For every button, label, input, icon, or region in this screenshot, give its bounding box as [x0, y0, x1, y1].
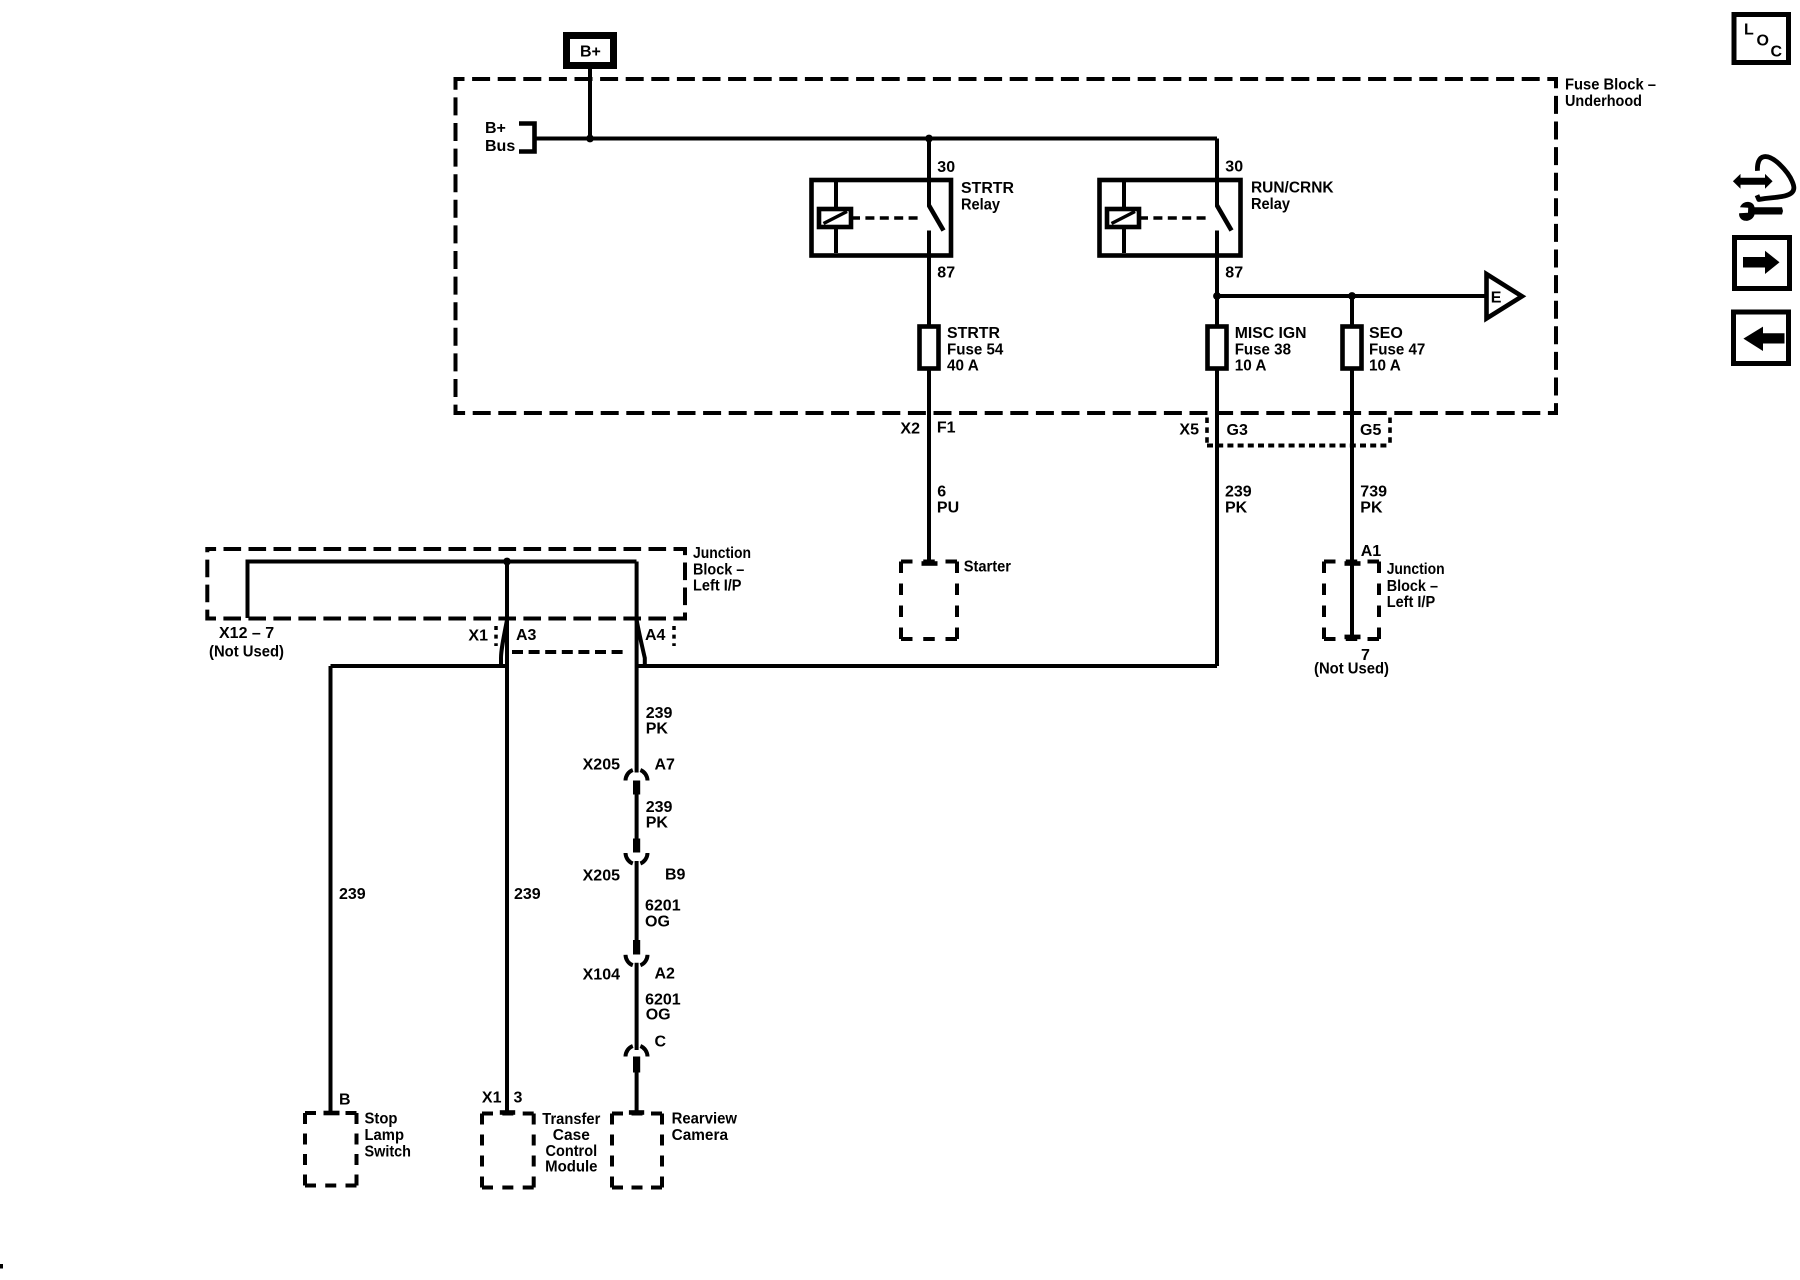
Junction Block - Left I/P top dashed box — [207, 549, 685, 619]
svg-text:X1: X1 — [468, 628, 488, 645]
label STRTR Relay — [961, 180, 1014, 213]
svg-text:OG: OG — [646, 1007, 671, 1024]
svg-text:30: 30 — [937, 159, 955, 176]
connector X5 dotted box with G3 G5 — [1179, 418, 1390, 448]
svg-text:X1: X1 — [482, 1090, 502, 1107]
svg-text:PK: PK — [646, 815, 669, 832]
svg-text:RUN/CRNK: RUN/CRNK — [1251, 180, 1334, 197]
svg-text:239: 239 — [1225, 483, 1252, 500]
svg-text:O: O — [1757, 33, 1769, 50]
svg-text:A2: A2 — [655, 966, 676, 983]
svg-text:Relay: Relay — [1251, 196, 1290, 213]
svg-text:3: 3 — [514, 1090, 523, 1107]
label Junction Block - Left I/P top — [693, 545, 751, 595]
pin label 7 (Not Used) right — [1314, 647, 1389, 677]
svg-text:6: 6 — [937, 483, 946, 500]
wire A7 to B9 — [635, 795, 639, 839]
svg-text:STRTR: STRTR — [961, 180, 1014, 197]
wire B+ bus horizontal — [535, 137, 1218, 141]
wire fuse 47 to junction block A1 — [1350, 369, 1354, 562]
label SEO Fuse 47 10 A — [1369, 325, 1425, 374]
svg-text:239: 239 — [339, 886, 366, 903]
connector C — [626, 1034, 667, 1073]
svg-text:PK: PK — [1225, 499, 1248, 516]
svg-text:A7: A7 — [655, 756, 676, 773]
icon back arrow box — [1734, 312, 1789, 364]
wire A2 to C — [635, 963, 639, 1050]
svg-text:Lamp: Lamp — [365, 1127, 405, 1144]
svg-text:G5: G5 — [1360, 422, 1381, 439]
connector X104 A2 — [583, 940, 675, 984]
component Transfer Case Control Module dashed box — [482, 1111, 600, 1188]
svg-text:SEO: SEO — [1369, 325, 1403, 342]
fuse SEO Fuse 47 — [1343, 327, 1362, 369]
svg-text:87: 87 — [937, 264, 955, 281]
label wire 239 PK top of camera chain — [646, 705, 673, 738]
label wire 6201 OG lower — [645, 991, 681, 1023]
relay STRTR — [812, 180, 952, 256]
component Starter dashed box — [901, 559, 1011, 639]
label RUN/CRNK Relay — [1251, 180, 1334, 213]
label wire 739 PK — [1360, 483, 1387, 516]
svg-text:30: 30 — [1225, 159, 1243, 176]
svg-text:G3: G3 — [1227, 422, 1248, 439]
svg-text:Rearview: Rearview — [672, 1111, 738, 1128]
B+ power symbol — [567, 36, 614, 66]
svg-text:A1: A1 — [1361, 543, 1382, 560]
svg-text:87: 87 — [1225, 264, 1243, 281]
speck bottom left — [0, 1264, 3, 1269]
svg-text:B9: B9 — [665, 866, 686, 883]
svg-text:239: 239 — [514, 886, 541, 903]
svg-text:10 A: 10 A — [1369, 357, 1401, 374]
wire A4 to fuse 38 horizontal — [637, 664, 1217, 668]
svg-text:Junction: Junction — [693, 545, 751, 562]
svg-text:239: 239 — [646, 705, 673, 722]
svg-text:C: C — [1771, 44, 1783, 61]
wire C to camera — [635, 1073, 639, 1112]
label B+ Bus — [485, 120, 515, 155]
node junction dot SEO branch — [1348, 292, 1356, 300]
svg-text:Control: Control — [546, 1143, 598, 1160]
svg-text:Case: Case — [553, 1127, 590, 1144]
node junction dot MISC IGN branch — [1213, 292, 1221, 300]
component Junction Block - Left I/P (A1) dashed box — [1324, 561, 1445, 639]
svg-text:6201: 6201 — [645, 898, 681, 915]
connector label X2 F1 — [900, 420, 955, 438]
wire A3 to stop lamp switch horizontal — [331, 664, 507, 668]
component Rearview Camera dashed box — [612, 1111, 738, 1188]
svg-text:C: C — [655, 1034, 667, 1051]
svg-text:Fuse Block –: Fuse Block – — [1565, 77, 1656, 94]
svg-text:Module: Module — [545, 1159, 597, 1176]
svg-text:X205: X205 — [583, 757, 620, 774]
svg-text:Left I/P: Left I/P — [693, 578, 742, 595]
connector X205 A7 — [583, 756, 675, 794]
pin label X12 - 7 (Not Used) — [209, 625, 284, 661]
wire B+ drop to bus — [588, 69, 592, 139]
wire junction block internal bus — [248, 562, 637, 619]
connector strip X1 A3 A4 — [468, 626, 674, 652]
svg-text:Underhood: Underhood — [1565, 93, 1642, 110]
Fuse Block - Underhood dashed box — [456, 79, 1557, 413]
connector X205 B9 — [583, 839, 686, 885]
svg-text:E: E — [1491, 289, 1502, 306]
svg-text:X5: X5 — [1179, 421, 1199, 438]
label STRTR Fuse 54 40 A — [947, 325, 1003, 374]
svg-text:A4: A4 — [645, 627, 666, 644]
svg-text:PK: PK — [646, 721, 669, 738]
fuse MISC IGN Fuse 38 — [1208, 327, 1227, 369]
wire MISC IGN branch down — [1215, 296, 1219, 327]
label wire 239 PK below A7 — [646, 799, 673, 832]
icon hand tools / swap arrows — [1733, 157, 1794, 221]
svg-text:X2: X2 — [900, 421, 920, 438]
wire RUN/CRNK 87 down — [1215, 256, 1219, 297]
svg-text:Fuse 47: Fuse 47 — [1369, 341, 1425, 358]
node junction dot at B+ drop — [586, 135, 594, 143]
svg-text:L: L — [1744, 22, 1754, 39]
svg-text:PK: PK — [1360, 499, 1383, 516]
icon LOC box top right — [1734, 15, 1789, 63]
svg-text:X12 – 7: X12 – 7 — [219, 625, 274, 642]
svg-text:(Not Used): (Not Used) — [1314, 660, 1389, 677]
svg-text:A3: A3 — [516, 627, 537, 644]
B+ Bus terminal bracket — [519, 124, 535, 152]
svg-text:X104: X104 — [583, 967, 620, 984]
svg-text:PU: PU — [937, 499, 959, 516]
svg-text:B: B — [339, 1092, 351, 1109]
label MISC IGN Fuse 38 10 A — [1235, 325, 1307, 374]
terminal arrow E — [1487, 274, 1523, 319]
svg-text:OG: OG — [645, 914, 670, 931]
svg-text:Fuse 54: Fuse 54 — [947, 341, 1003, 358]
wire stop lamp drop — [329, 666, 333, 1111]
wire bus to STRTR relay pin 30 — [927, 139, 931, 181]
fuse STRTR Fuse 54 — [920, 327, 939, 369]
svg-text:Junction: Junction — [1387, 561, 1445, 578]
wire fuse 38 down to A4 run — [1215, 369, 1219, 667]
svg-text:40 A: 40 A — [947, 357, 979, 374]
svg-text:739: 739 — [1360, 483, 1387, 500]
wire B9 to A2 — [635, 861, 639, 940]
label wire 6201 OG — [645, 898, 681, 931]
relay RUN/CRNK — [1100, 180, 1241, 256]
svg-text:B+: B+ — [485, 120, 506, 137]
wire STRTR 87 to fuse 54 — [927, 256, 931, 327]
svg-text:B+: B+ — [580, 44, 601, 61]
icon forward arrow box — [1735, 238, 1790, 289]
wire A4 branch down to camera chain — [635, 562, 639, 773]
connector label X1 3 transfer case — [482, 1090, 523, 1107]
wire bus corner down to RUN/CRNK relay pin 30 — [1215, 139, 1219, 181]
node junction dot A3 branch — [503, 558, 511, 566]
svg-text:Bus: Bus — [485, 138, 515, 155]
svg-text:F1: F1 — [937, 420, 956, 437]
svg-text:Block –: Block – — [693, 562, 744, 579]
node junction dot at STRTR relay pin 30 — [925, 135, 933, 143]
svg-text:MISC IGN: MISC IGN — [1235, 325, 1307, 342]
wire to E arrow — [1217, 294, 1487, 298]
svg-text:Starter: Starter — [964, 559, 1011, 576]
svg-text:Camera: Camera — [672, 1127, 728, 1144]
svg-text:10 A: 10 A — [1235, 357, 1267, 374]
svg-text:X205: X205 — [583, 867, 620, 884]
wire SEO branch down — [1350, 296, 1354, 327]
wire fuse 54 to starter — [927, 369, 931, 562]
svg-text:STRTR: STRTR — [947, 325, 1000, 342]
svg-text:(Not Used): (Not Used) — [209, 644, 284, 661]
label wire 6 PU — [937, 483, 959, 516]
wire A3 branch down to transfer case module — [505, 562, 509, 1112]
svg-text:Switch: Switch — [365, 1144, 412, 1161]
svg-text:239: 239 — [646, 799, 673, 816]
svg-text:Stop: Stop — [365, 1111, 398, 1128]
label wire 239 PK (fuse 38) — [1225, 483, 1252, 516]
svg-text:Block –: Block – — [1387, 578, 1438, 595]
label Fuse Block - Underhood — [1565, 77, 1656, 110]
svg-text:Fuse 38: Fuse 38 — [1235, 341, 1291, 358]
svg-text:Relay: Relay — [961, 196, 1000, 213]
svg-text:Left I/P: Left I/P — [1387, 594, 1436, 611]
svg-text:Transfer: Transfer — [542, 1111, 600, 1128]
component Stop Lamp Switch dashed box — [305, 1111, 411, 1186]
